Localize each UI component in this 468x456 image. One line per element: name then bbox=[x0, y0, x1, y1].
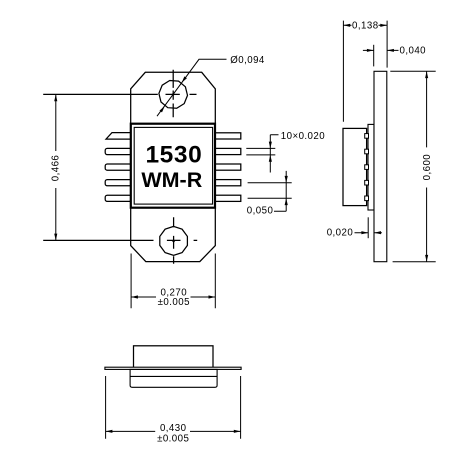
arrow 0,040 right bbox=[387, 49, 394, 52]
arrow 10x0.020 upper bbox=[269, 142, 272, 149]
bottom hole horizontal centerline bbox=[43, 239, 197, 241]
dia leader arrow lower bbox=[160, 106, 165, 112]
package body bbox=[131, 124, 215, 208]
dim 0,430 extension lines bbox=[106, 376, 241, 439]
dim 0,040 line bbox=[363, 49, 399, 51]
right lead 3 bbox=[215, 164, 241, 170]
bottom hole vertical centerline bbox=[173, 217, 175, 263]
left lead 5 bbox=[105, 195, 131, 201]
right lead 2 bbox=[215, 148, 241, 154]
svg-text:Ø0,094: Ø0,094 bbox=[230, 55, 265, 66]
dim 0,600 extension lines bbox=[390, 71, 435, 261]
arrow 0,430 right bbox=[234, 430, 241, 433]
dia leader line bbox=[157, 59, 227, 116]
side view lead end 2 bbox=[365, 149, 369, 154]
svg-text:0,466: 0,466 bbox=[51, 155, 62, 182]
bottom view body bbox=[134, 346, 214, 368]
svg-text:1530: 1530 bbox=[145, 141, 202, 168]
dim 10x0.020 line and leader bbox=[270, 135, 278, 173]
side view lead end 1 bbox=[365, 134, 369, 139]
dim 0,020 line bbox=[355, 232, 382, 234]
right lead 5 bbox=[215, 195, 241, 201]
svg-text:±0.005: ±0.005 bbox=[158, 297, 190, 308]
left lead 1 (formed, parallelogram) bbox=[106, 133, 132, 140]
right lead 4 bbox=[215, 180, 241, 186]
top hole vertical centerline bbox=[172, 70, 174, 117]
bottom view leads slab bbox=[105, 367, 241, 369]
bottom view standoff line bbox=[130, 375, 217, 377]
dim 10x0.020 extension lines bbox=[246, 148, 275, 155]
svg-text:±0.005: ±0.005 bbox=[157, 434, 189, 445]
svg-text:0,600: 0,600 bbox=[422, 154, 433, 181]
arrow 0,020 left bbox=[361, 231, 368, 234]
dim 0,020 extension line bbox=[367, 217, 369, 238]
package lid bbox=[134, 127, 212, 204]
side view flange bbox=[374, 71, 387, 261]
front view flange outline bbox=[131, 72, 216, 261]
side view lead end 4 bbox=[365, 180, 369, 185]
left lead 3 bbox=[105, 164, 131, 170]
svg-text:0,020: 0,020 bbox=[327, 227, 354, 238]
dim 0,466 line bbox=[55, 94, 57, 240]
left lead 4 bbox=[105, 180, 131, 186]
svg-text:0,430: 0,430 bbox=[160, 423, 187, 434]
dim 0,050 extension lines bbox=[248, 183, 292, 199]
svg-text:0,050: 0,050 bbox=[247, 205, 274, 216]
right lead 1 bbox=[215, 133, 241, 139]
side view body bbox=[343, 128, 367, 205]
arrow 10x0.020 lower bbox=[269, 155, 272, 162]
dim 0,270 extension lines bbox=[131, 254, 215, 309]
side view lead frame strip bbox=[368, 124, 374, 210]
side view lead end 5 bbox=[365, 196, 369, 201]
arrow 0,466 bottom bbox=[54, 234, 57, 241]
svg-text:WM-R: WM-R bbox=[141, 168, 202, 192]
arrow 0,050 lower bbox=[285, 198, 288, 205]
arrow 0,138 left bbox=[343, 24, 350, 27]
dim 0,138 extension lines bbox=[343, 21, 387, 122]
dim 0,050 line and leader bbox=[274, 171, 286, 211]
top hole horizontal centerline bbox=[43, 93, 196, 95]
dim 0,040 extension line bbox=[373, 45, 375, 67]
arrow 0,600 top bbox=[425, 71, 428, 78]
dia leader arrow upper bbox=[182, 76, 187, 82]
arrow 0,040 left bbox=[367, 49, 374, 52]
dim 0,600 line bbox=[426, 71, 428, 261]
arrow 0,270 right bbox=[209, 295, 216, 298]
arrow 0,050 upper bbox=[285, 176, 288, 183]
bottom mounting hole bbox=[160, 226, 188, 255]
svg-text:10×0.020: 10×0.020 bbox=[281, 131, 325, 142]
dim 0,138 line bbox=[343, 24, 387, 26]
svg-text:0,040: 0,040 bbox=[400, 46, 427, 57]
top hole center dot bbox=[172, 93, 174, 95]
arrow 0,138 right bbox=[380, 24, 387, 27]
arrow 0,270 left bbox=[131, 295, 138, 298]
arrow 0,466 top bbox=[54, 94, 57, 101]
side view lead end 3 bbox=[365, 165, 369, 170]
arrow 0,600 bottom bbox=[425, 255, 428, 262]
dim 0,430 line bbox=[106, 430, 241, 432]
bottom hole center dot bbox=[172, 240, 175, 243]
top mounting hole bbox=[159, 81, 188, 109]
arrow 0,020 right bbox=[374, 231, 381, 234]
svg-text:0,138: 0,138 bbox=[352, 20, 379, 31]
arrow 0,430 left bbox=[106, 430, 113, 433]
bottom view standoff and flange plate bbox=[130, 369, 217, 387]
dim 0,270 line bbox=[131, 296, 215, 298]
left lead 2 bbox=[105, 148, 131, 154]
